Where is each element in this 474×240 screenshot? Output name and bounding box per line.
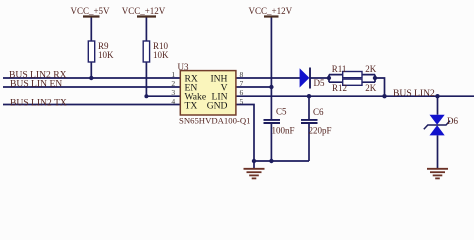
svg-text:220pF: 220pF [309, 126, 332, 136]
svg-text:U3: U3 [178, 62, 189, 72]
svg-text:2K: 2K [365, 64, 377, 74]
svg-text:5: 5 [240, 97, 244, 106]
svg-text:7: 7 [240, 79, 244, 88]
svg-text:D6: D6 [447, 116, 458, 126]
svg-text:BUS LIN2: BUS LIN2 [393, 88, 435, 99]
svg-text:VCC_+12V: VCC_+12V [249, 6, 293, 16]
svg-text:4: 4 [171, 97, 175, 106]
svg-text:6: 6 [240, 88, 244, 97]
svg-text:10K: 10K [153, 50, 169, 60]
svg-text:R11: R11 [332, 64, 347, 74]
svg-text:TX: TX [185, 101, 198, 112]
svg-text:10K: 10K [98, 50, 114, 60]
svg-text:2: 2 [171, 79, 175, 88]
svg-text:C6: C6 [313, 107, 324, 117]
svg-text:3: 3 [171, 88, 175, 97]
svg-text:100nF: 100nF [272, 126, 295, 136]
svg-text:8: 8 [240, 70, 244, 79]
svg-text:BUS LIN EN: BUS LIN EN [10, 79, 62, 90]
svg-text:VCC_+5V: VCC_+5V [70, 6, 110, 16]
svg-text:1: 1 [171, 70, 175, 79]
svg-text:SN65HVDA100-Q1: SN65HVDA100-Q1 [179, 115, 250, 125]
svg-text:C5: C5 [276, 107, 287, 117]
svg-text:GND: GND [207, 101, 228, 112]
svg-text:R12: R12 [332, 83, 347, 93]
svg-text:BUS LIN2 TX: BUS LIN2 TX [10, 97, 67, 108]
svg-text:D5: D5 [314, 78, 325, 88]
svg-text:2K: 2K [365, 83, 377, 93]
svg-text:VCC_+12V: VCC_+12V [122, 6, 166, 16]
